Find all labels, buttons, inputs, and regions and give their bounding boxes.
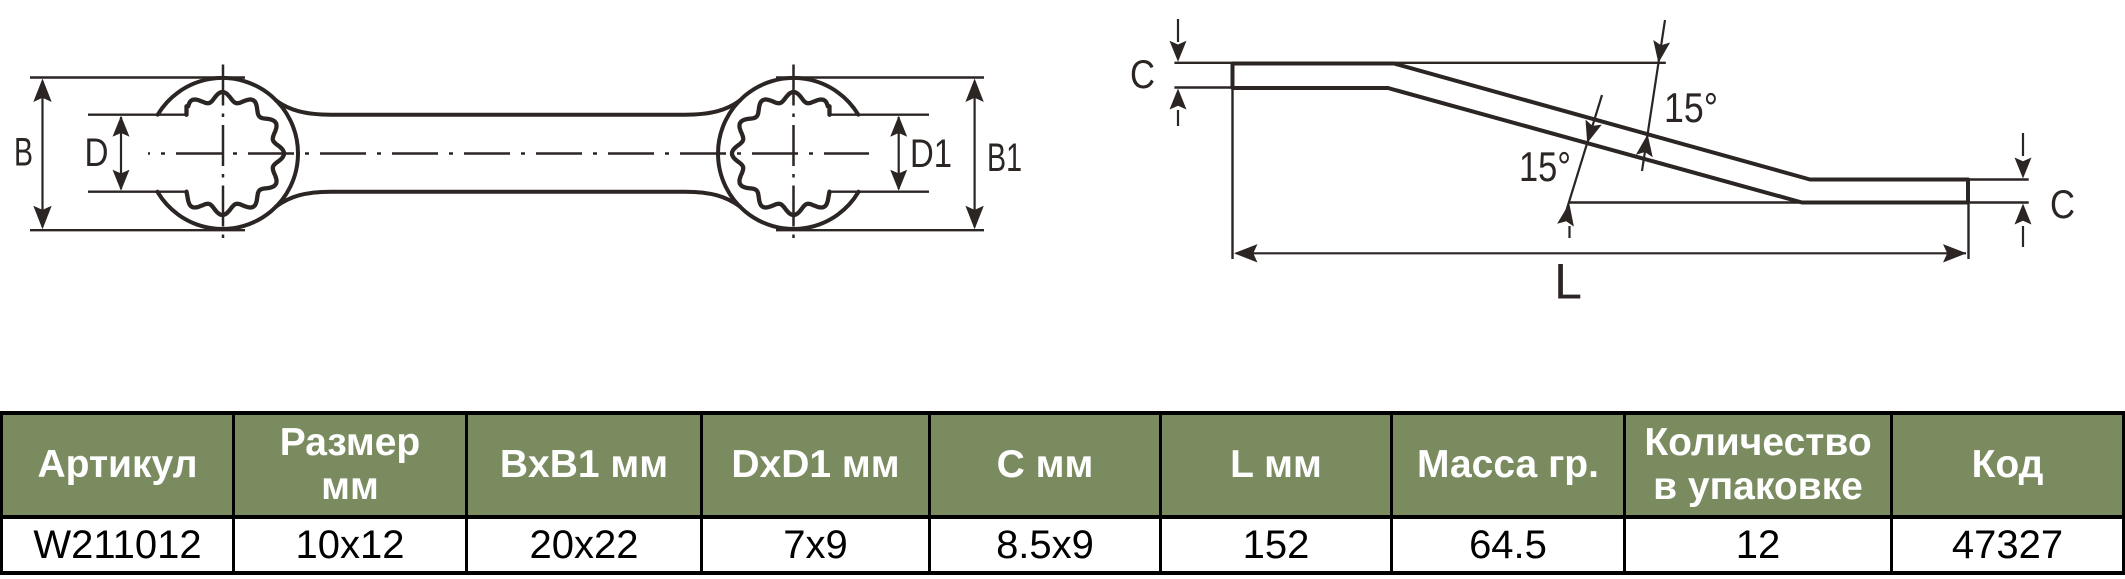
B arrowheads [33,79,51,103]
left ring vertical centerline [222,65,225,246]
data table [0,411,2125,575]
L arrowheads [1234,244,1258,262]
B dimension line [41,81,43,227]
D top extension line [88,113,186,115]
left C up arrow shaft [1177,110,1179,126]
svg-text:D: D [85,131,109,175]
B bottom extension line [30,229,245,231]
side view: wrench body outline [1233,64,1969,203]
D arrowheads [113,116,130,137]
L left extension line [1231,90,1233,259]
upper 15 deg arrowheads [1653,40,1670,63]
right ring 12-point inner profile with jogs [732,92,830,215]
upper 15 deg chord line [1642,20,1665,171]
D1 bottom extension line [830,190,930,192]
svg-text:D1: D1 [910,132,952,176]
right C arrowheads [2015,158,2032,179]
left C arrowheads [1170,41,1187,62]
D dimension line [120,117,122,189]
lower 15 deg up arrow shaft [1568,226,1570,238]
L dimension line [1236,252,1966,254]
handle bottom edge with neck curves [276,192,740,207]
right C up arrow shaft [2022,226,2024,247]
svg-text:C: C [2050,183,2075,227]
D bottom extension line [88,190,186,192]
right C down arrow shaft [2022,133,2024,156]
side view top reference line [1174,62,1665,64]
B1 dimension line [973,81,975,227]
front view: right ring outer circle (arc open at right) [718,78,859,229]
horizontal centerline of front view [148,152,869,155]
left ring 12-point inner profile with jogs [187,92,285,215]
D1 dimension line [898,117,900,189]
side view right C extension lines [1968,178,2029,180]
svg-text:B: B [14,131,33,175]
D1 top extension line [830,113,930,115]
B top extension line [30,76,245,78]
side view bottom reference line [1569,201,1805,203]
technical drawing of double box-end wrench [0,0,2125,411]
side view left C bottom extension [1174,86,1234,88]
left C down arrow shaft [1177,19,1179,42]
lower 15 deg arrowheads [1586,120,1602,144]
B1 top extension line [776,76,984,78]
svg-text:L: L [1554,254,1582,310]
B1 bottom extension line [776,229,984,231]
svg-text:B1: B1 [987,136,1022,180]
handle top edge with neck curves [276,101,740,115]
front view: left ring outer circle (arc open at left) [157,78,298,229]
svg-text:15°: 15° [1519,143,1571,190]
svg-text:15°: 15° [1664,84,1718,131]
B1 arrowheads [965,79,983,103]
right ring vertical centerline [792,65,795,246]
L right extension line [1967,204,1969,259]
svg-text:C: C [1130,53,1155,97]
lower 15 deg chord line [1565,95,1602,215]
D1 arrowheads [890,116,907,137]
